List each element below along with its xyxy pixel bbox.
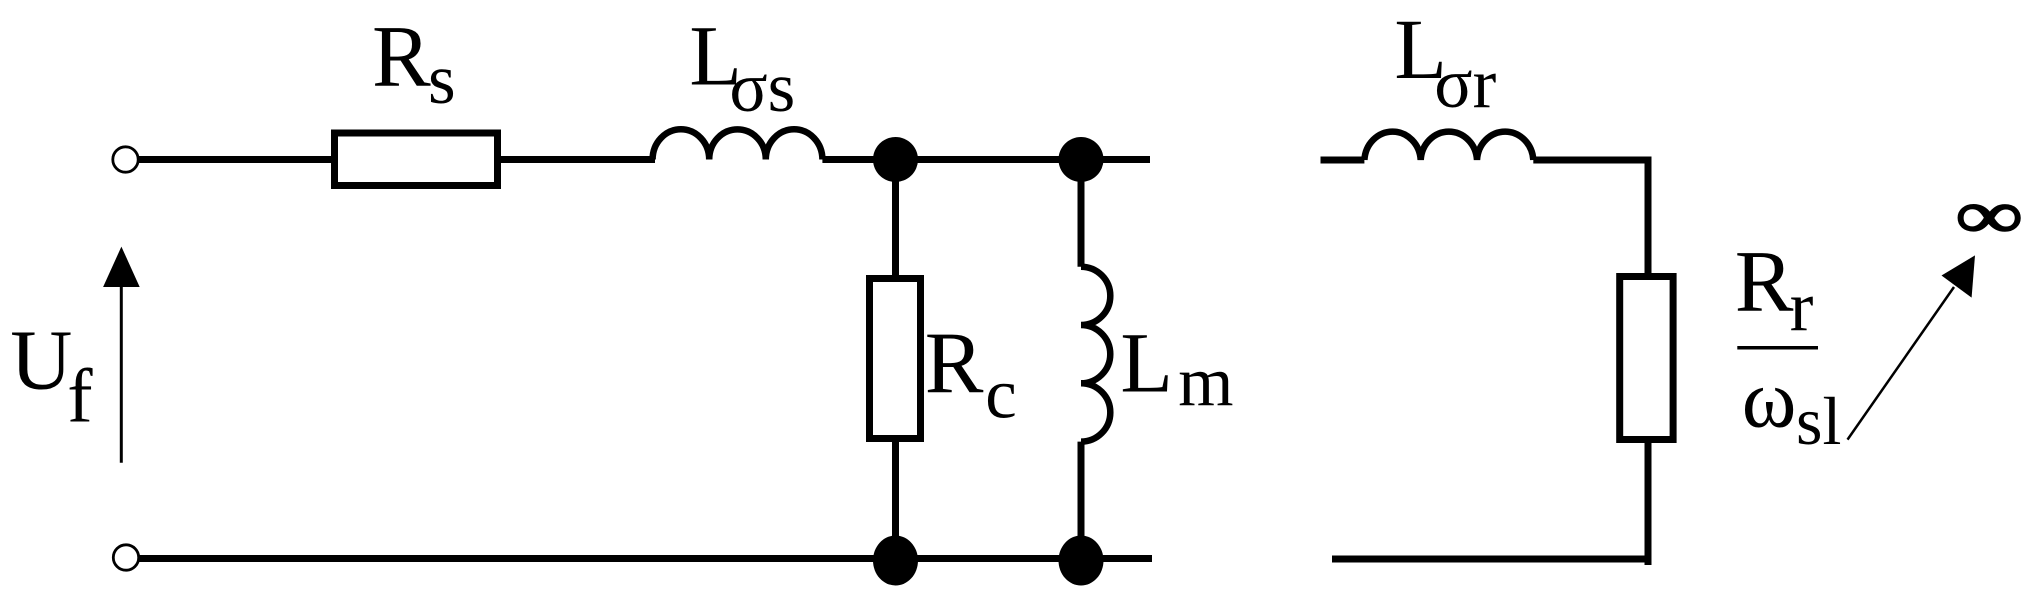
label U_f	[10, 311, 93, 438]
svg-text:R: R	[1735, 234, 1794, 331]
resistor Rr/wsl (rotor)	[1620, 277, 1673, 440]
svg-text:R: R	[372, 9, 431, 106]
fraction bar	[1737, 346, 1818, 350]
wire top-right stub to Lsr	[1321, 157, 1365, 164]
svg-text:L: L	[1120, 315, 1173, 411]
svg-text:ω: ω	[1742, 353, 1797, 445]
wire Lsr to right corner	[1533, 160, 1648, 277]
terminal top-left	[113, 147, 138, 172]
svg-text:σr: σr	[1434, 45, 1496, 123]
wire Rc down to node C	[892, 439, 899, 560]
wire bottom-left rail	[139, 555, 1152, 562]
svg-text:s: s	[428, 41, 456, 119]
wire node B down to Lm	[1078, 160, 1085, 267]
svg-text:sl: sl	[1796, 383, 1841, 459]
label wsl (denominator)	[1742, 353, 1842, 460]
svg-text:σs: σs	[729, 49, 795, 127]
svg-text:m: m	[1178, 343, 1233, 421]
arrow to infinity (slip frequency arrow)	[1848, 255, 1976, 439]
terminal bottom-left	[113, 545, 138, 570]
resistor Rs	[335, 133, 498, 186]
node B (top, Lm junction)	[1059, 137, 1104, 182]
svg-text:c: c	[985, 355, 1017, 433]
wire Rs to Lss	[498, 156, 655, 163]
label Rr (numerator)	[1735, 234, 1814, 346]
inductor Lsr (rotor leakage)	[1364, 132, 1533, 160]
arrow Uf (voltage arrow)	[103, 247, 140, 463]
wire bottom-right rail	[1332, 556, 1652, 563]
svg-text:r: r	[1790, 268, 1814, 346]
label Rc	[925, 316, 1017, 434]
wire Lm down to node D	[1078, 442, 1085, 559]
label infinity	[1955, 177, 2023, 253]
label Lsr	[1394, 1, 1496, 123]
wire top-left (terminal to Rs)	[138, 156, 334, 163]
wire Rr down to bottom-right rail	[1645, 440, 1652, 566]
inductor Lm (magnetizing)	[1081, 267, 1110, 442]
node C (bottom, Rc junction)	[873, 536, 918, 586]
wire node A down to Rc	[892, 160, 899, 279]
node A (top, Rc junction)	[873, 137, 918, 182]
label Rs	[372, 9, 456, 119]
label Lss	[689, 7, 795, 127]
svg-text:R: R	[925, 316, 984, 413]
inductor Lss (stator leakage)	[653, 129, 823, 159]
svg-text:f: f	[67, 355, 93, 439]
svg-text:U: U	[10, 311, 72, 407]
resistor Rc (core loss)	[870, 279, 921, 439]
svg-text:∞: ∞	[1955, 177, 2023, 253]
node D (bottom, Lm junction)	[1059, 536, 1104, 586]
wire Lss to node A and node B and stub	[822, 156, 1150, 163]
label Lm	[1120, 315, 1233, 421]
